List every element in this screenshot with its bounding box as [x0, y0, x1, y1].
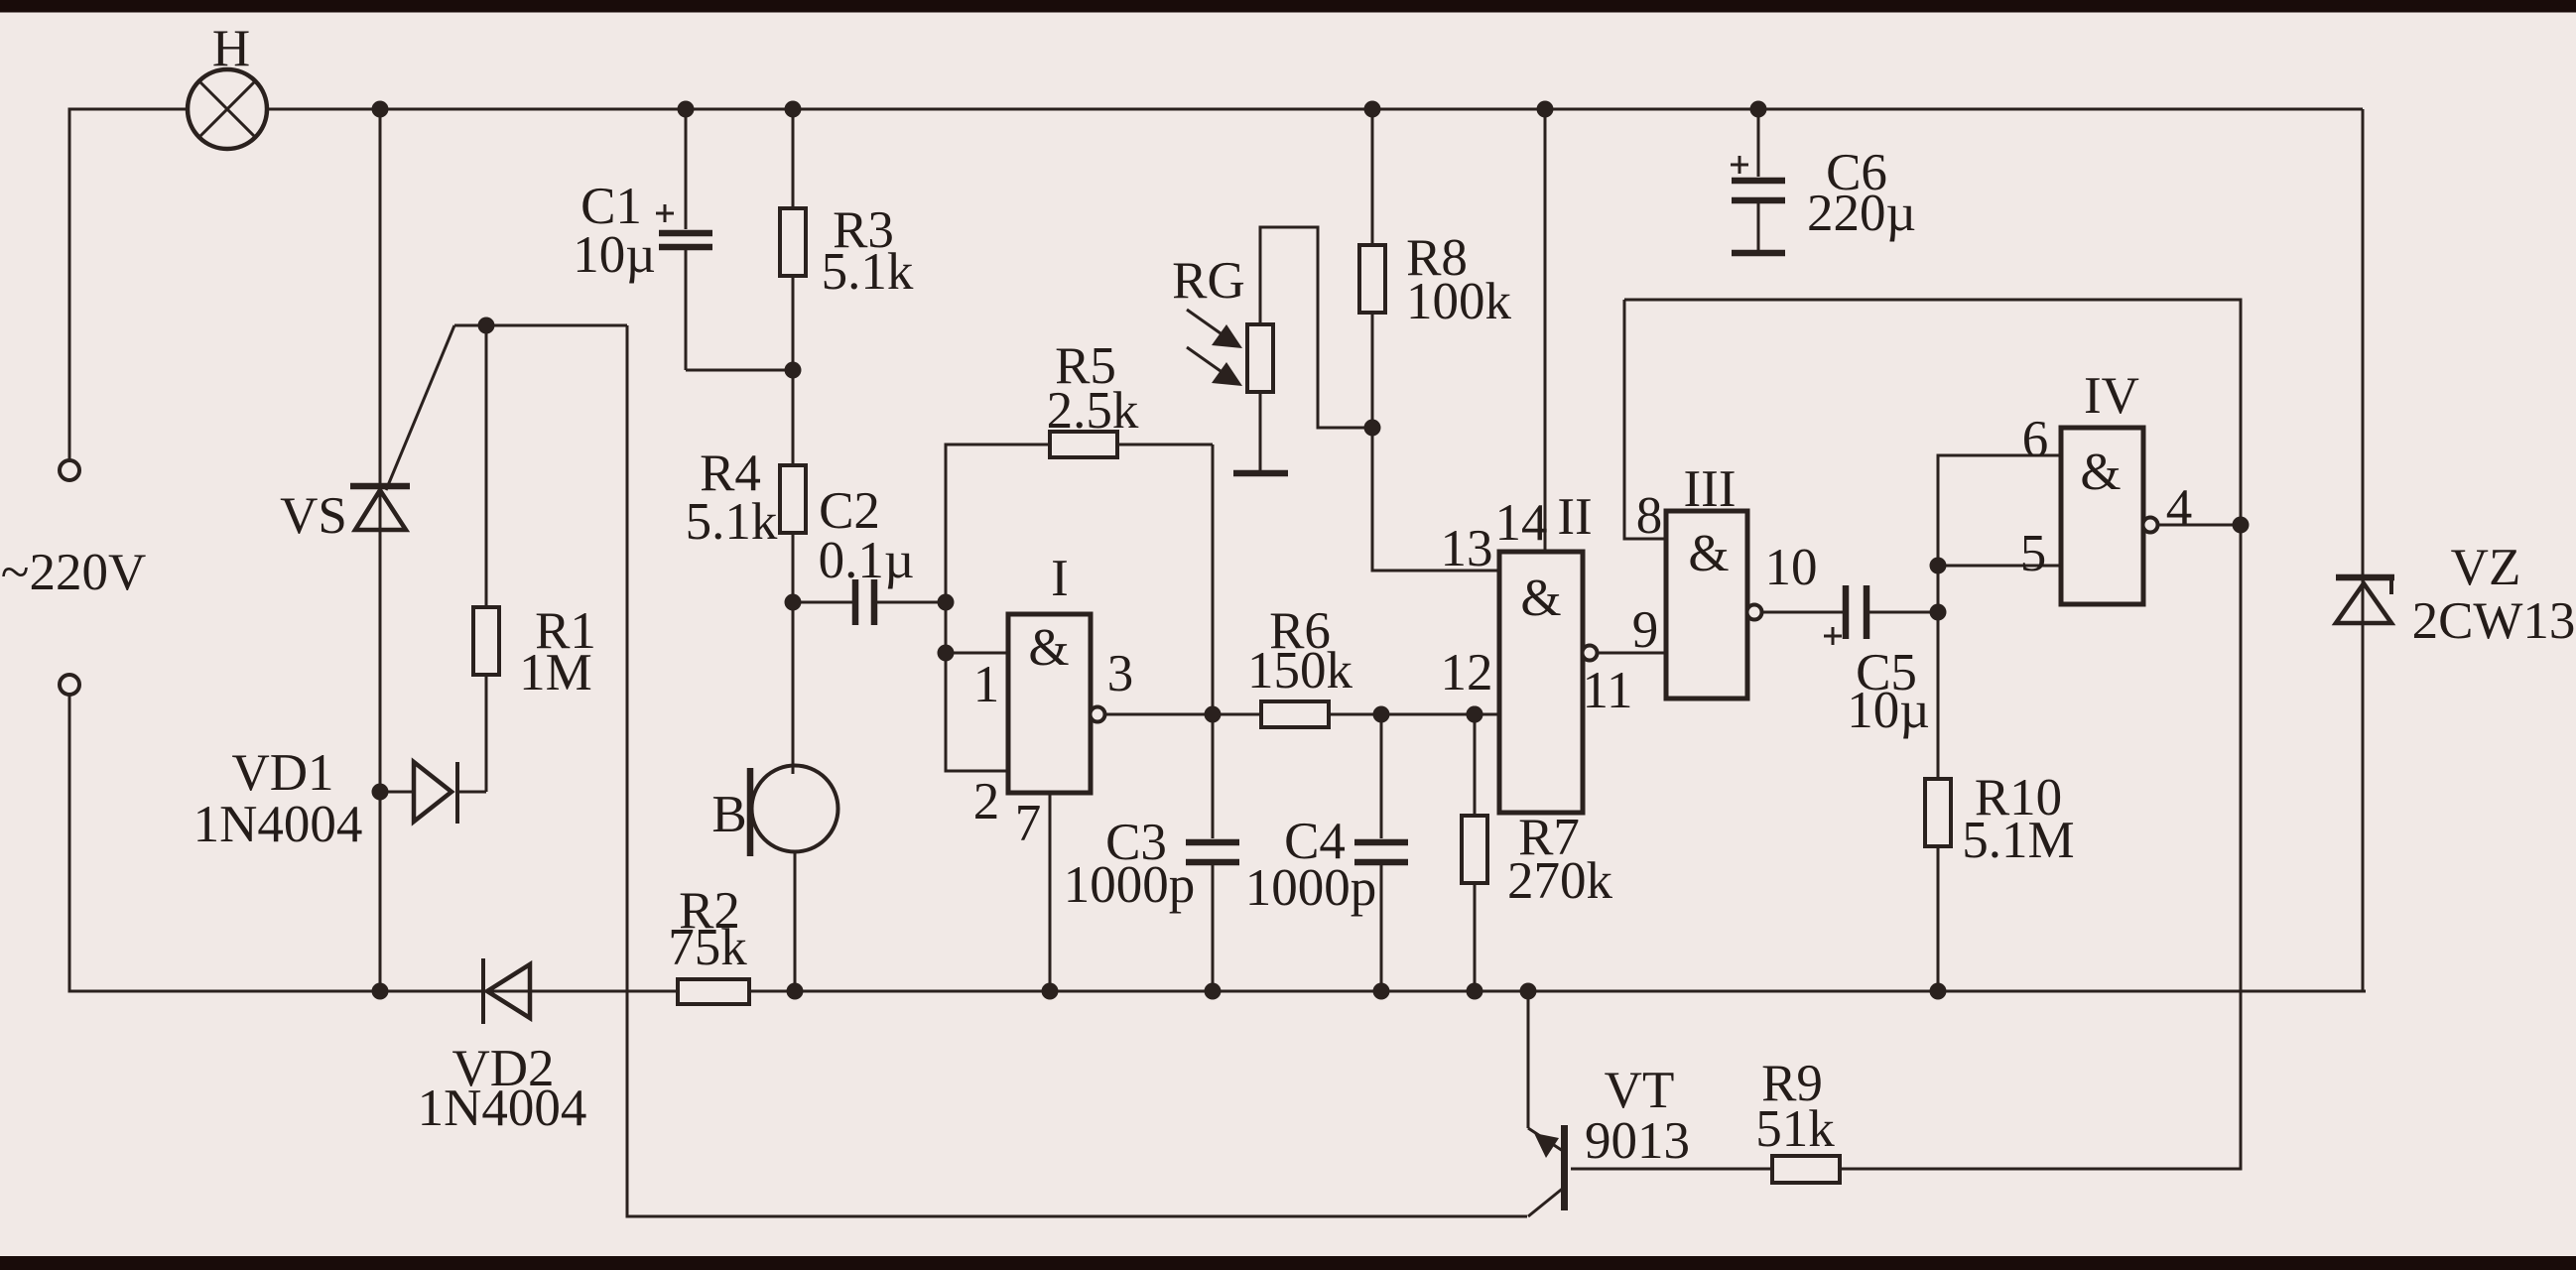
- resistor R10: [1925, 566, 2075, 991]
- wire pin 8: [1624, 300, 1666, 539]
- svg-text:220µ: 220µ: [1807, 185, 1916, 242]
- node C3 bottom junction: [1205, 983, 1222, 1000]
- svg-text:1000p: 1000p: [1245, 859, 1377, 917]
- node pin5 junction: [1930, 558, 1947, 574]
- wire top rail: [267, 108, 2363, 111]
- svg-text:5.1k: 5.1k: [822, 243, 914, 301]
- svg-text:RG: RG: [1172, 252, 1245, 310]
- wire collector run from gate node: [627, 325, 1527, 1216]
- svg-text:2: 2: [973, 773, 1000, 830]
- photoresistor RG: [1172, 227, 1372, 473]
- node pin7 bottom junction: [1042, 983, 1059, 1000]
- op-amp gate II nand: [1441, 488, 1633, 813]
- zener VZ 2CW13: [2336, 109, 2575, 991]
- node ~220V label: [1, 544, 146, 601]
- node top rail at pin14: [1537, 101, 1554, 118]
- svg-text:&: &: [2080, 444, 2121, 501]
- svg-text:&: &: [1028, 619, 1069, 677]
- svg-text:III: III: [1684, 460, 1737, 518]
- svg-text:&: &: [1688, 525, 1729, 582]
- node mic bottom junction: [787, 983, 804, 1000]
- diode VD2 1N4004: [418, 958, 587, 1137]
- wire gate I output: [1105, 713, 1261, 716]
- node top rail at R3: [785, 101, 802, 118]
- svg-text:1M: 1M: [519, 644, 592, 701]
- svg-text:3: 3: [1107, 645, 1134, 702]
- svg-text:~220V: ~220V: [1, 544, 146, 601]
- resistor R4: [686, 370, 806, 774]
- svg-text:VD1: VD1: [231, 744, 333, 802]
- microphone B: [711, 766, 837, 992]
- wire left bottom: [69, 695, 380, 991]
- svg-text:B: B: [711, 786, 746, 843]
- node R10 bottom junction: [1930, 983, 1947, 1000]
- resistor R7: [1462, 714, 1613, 991]
- op-amp gate III nand: [1636, 460, 1818, 698]
- svg-text:100k: 100k: [1406, 273, 1512, 330]
- svg-text:14: 14: [1495, 494, 1548, 552]
- capacitor C1 10u: [573, 109, 793, 370]
- capacitor C3 1000p: [1064, 714, 1239, 991]
- wire pin 14: [1544, 109, 1547, 552]
- wire R9 run from gate IV output: [1840, 525, 2241, 1169]
- wire VS vertical: [379, 109, 382, 991]
- node C5 right junction: [1930, 604, 1947, 621]
- svg-text:5.1M: 5.1M: [1962, 812, 2074, 869]
- node C2 right junction: [938, 594, 955, 611]
- node VS bottom junction: [372, 983, 389, 1000]
- wire pin1 stub: [946, 652, 1008, 655]
- resistor R9: [1571, 1055, 1840, 1183]
- svg-text:&: &: [1520, 570, 1561, 627]
- svg-text:10µ: 10µ: [1847, 682, 1930, 739]
- node gate IV output junction: [2233, 517, 2250, 534]
- svg-text:6: 6: [2022, 411, 2049, 468]
- svg-text:1N4004: 1N4004: [193, 796, 363, 853]
- node pin12 junction: [1467, 706, 1483, 723]
- wire pin 7 down: [1049, 793, 1052, 991]
- wire gate II output to gate III: [1598, 601, 1666, 659]
- resistor R2: [668, 882, 749, 1004]
- svg-text:9: 9: [1632, 601, 1659, 659]
- svg-text:51k: 51k: [1755, 1100, 1835, 1158]
- svg-text:IV: IV: [2084, 367, 2139, 425]
- svg-text:75k: 75k: [668, 919, 747, 976]
- terminal upper: [60, 460, 79, 480]
- svg-text:H: H: [212, 20, 250, 77]
- svg-text:12: 12: [1441, 644, 1493, 701]
- node junction top rail at VS: [372, 101, 389, 118]
- svg-text:1000p: 1000p: [1064, 856, 1196, 914]
- node C4 bottom junction: [1373, 983, 1390, 1000]
- wire pin 13: [1372, 428, 1499, 571]
- svg-text:11: 11: [1582, 662, 1632, 719]
- svg-text:0.1µ: 0.1µ: [819, 532, 915, 589]
- svg-text:10µ: 10µ: [573, 226, 656, 284]
- resistor R3: [780, 109, 914, 370]
- svg-text:13: 13: [1441, 520, 1493, 577]
- node gate I output junction: [1205, 706, 1222, 723]
- node VT emitter junction: [1520, 983, 1537, 1000]
- transistor VT 9013: [1528, 991, 1690, 1216]
- svg-text:8: 8: [1636, 487, 1663, 545]
- op-amp gate IV nand: [2020, 367, 2193, 604]
- wire feedback gate IV out to pin8: [1624, 300, 2241, 525]
- terminal lower: [60, 675, 79, 695]
- svg-text:5.1k: 5.1k: [686, 493, 778, 551]
- svg-text:4: 4: [2166, 479, 2193, 537]
- svg-text:I: I: [1051, 550, 1069, 607]
- wire R5 top run: [946, 444, 1050, 602]
- wire gate IV output: [2158, 524, 2241, 527]
- svg-text:9013: 9013: [1585, 1112, 1690, 1170]
- node top rail at C1: [678, 101, 695, 118]
- svg-text:1: 1: [973, 656, 1000, 713]
- resistor R1: [473, 325, 596, 792]
- node VD1 junction on VS line: [372, 784, 389, 801]
- svg-text:150k: 150k: [1247, 642, 1353, 699]
- resistor R8: [1359, 109, 1512, 428]
- node R3 R4 C1 junction: [785, 362, 802, 379]
- capacitor C5 10u: [1762, 585, 1938, 739]
- svg-text:2.5k: 2.5k: [1047, 382, 1139, 440]
- node gate junction: [478, 317, 495, 334]
- svg-text:5: 5: [2020, 525, 2047, 582]
- node top rail at R8: [1364, 101, 1381, 118]
- wire R5 left bracket: [946, 602, 1008, 771]
- wire bottom rail: [380, 990, 2366, 993]
- resistor R5: [1047, 337, 1213, 714]
- svg-text:VZ: VZ: [2451, 539, 2521, 596]
- svg-text:10: 10: [1765, 539, 1818, 596]
- op-amp gate I nand: [973, 550, 1134, 852]
- wire pin 6: [1938, 455, 2061, 566]
- wire top rail left of lamp: [69, 109, 188, 460]
- node pin1 junction: [938, 645, 955, 662]
- resistor R6: [1247, 602, 1499, 727]
- wire pin 5: [1938, 565, 2061, 568]
- svg-text:II: II: [1557, 488, 1592, 546]
- node R8 RG junction: [1364, 420, 1381, 437]
- node R7 top junction: [1467, 706, 1483, 723]
- capacitor C4 1000p: [1245, 714, 1408, 991]
- capacitor C6 220u: [1731, 109, 1916, 253]
- svg-text:1N4004: 1N4004: [418, 1079, 587, 1137]
- node R7 bottom junction: [1467, 983, 1483, 1000]
- lamp H: [188, 20, 267, 149]
- capacitor C2 0.1u: [793, 482, 946, 625]
- svg-text:VS: VS: [280, 487, 347, 545]
- diode VD1 1N4004: [193, 744, 486, 853]
- thyristor VS: [280, 325, 454, 545]
- svg-text:2CW13: 2CW13: [2412, 592, 2576, 650]
- svg-text:7: 7: [1015, 795, 1042, 852]
- node C4 top junction: [1373, 706, 1390, 723]
- svg-text:270k: 270k: [1507, 852, 1613, 910]
- svg-text:VT: VT: [1605, 1062, 1675, 1119]
- node top rail at C6: [1750, 101, 1767, 118]
- node C2 tap on R4 line: [785, 594, 802, 611]
- wire VS gate node to R1 and right: [454, 324, 627, 327]
